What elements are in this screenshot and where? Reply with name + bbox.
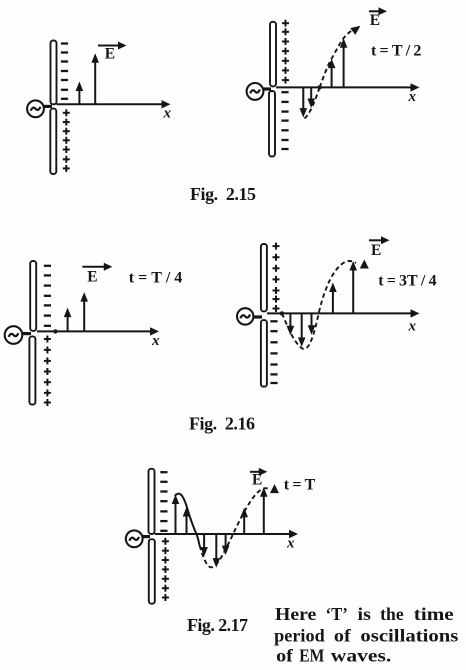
- negative charges D2: [281, 92, 288, 149]
- svg-text:E: E: [105, 46, 115, 63]
- E arrow up 1 D4: [329, 283, 337, 314]
- E arrow down 1 D2: [300, 87, 308, 117]
- E arrow down 2 D4: [298, 313, 306, 347]
- positive charges D3: [44, 336, 51, 407]
- E arrow up 2 D4: [349, 261, 357, 313]
- x-axis D1: [57, 100, 172, 121]
- x-axis D4: [267, 309, 420, 334]
- E arrow down 3 D4: [308, 313, 316, 334]
- negative charges D1: [61, 44, 68, 99]
- E vector label D2: [369, 7, 387, 29]
- negative charges D5: [160, 472, 167, 531]
- wave rising crest (dashed) D2: [320, 30, 354, 88]
- svg-text:x: x: [408, 89, 417, 105]
- caption text: time period note: [274, 604, 458, 666]
- E arrow 2 D3: [80, 292, 88, 331]
- svg-text:Here‘T’isthetime: Here‘T’isthetime: [275, 604, 454, 624]
- wire: source to antenna: [252, 315, 262, 318]
- E vector label D4: [369, 236, 390, 258]
- node dot on axis D2: [317, 85, 321, 89]
- E arrow up 2 D2: [340, 38, 348, 87]
- E arrow down 3 D5: [222, 534, 230, 555]
- E arrow down 1 D4: [287, 313, 295, 335]
- wave end arrowhead D4: [360, 260, 369, 269]
- antenna upper rod D4: [261, 244, 267, 311]
- E arrow 1 D3: [64, 308, 72, 332]
- positive charges D4: [273, 243, 280, 312]
- positive charges D5: [162, 538, 169, 601]
- antenna upper rod D5: [149, 469, 155, 534]
- svg-text:periodofoscillations: periodofoscillations: [274, 626, 458, 646]
- diagram 3: antenna at t=T/4: [5, 261, 183, 406]
- wave trough+crest (dashed) D5: [200, 488, 269, 567]
- E arrow up 1 D2: [328, 59, 336, 88]
- x-axis D5: [155, 530, 298, 552]
- svg-text:E: E: [87, 269, 97, 286]
- negative charges D4: [270, 321, 277, 383]
- E vector label D3: [82, 263, 112, 286]
- E arrow down 2 D5: [213, 534, 221, 568]
- E arrow up 3 D5: [240, 508, 248, 534]
- svg-text:x: x: [408, 319, 417, 335]
- svg-text:Fig. 2.17: Fig. 2.17: [187, 615, 248, 635]
- AC source: [5, 326, 23, 344]
- svg-text:x: x: [163, 106, 172, 122]
- node dot on axis D3: [53, 329, 57, 333]
- antenna lower rod D4: [261, 320, 267, 387]
- E arrow up 4 D5: [260, 487, 268, 534]
- wire: source to antenna: [42, 105, 52, 108]
- diagram 4: antenna at t=3T/4: [237, 236, 437, 386]
- wire: source to antenna: [140, 535, 150, 538]
- wave arrowhead D2: [350, 22, 363, 34]
- svg-text:x: x: [286, 536, 295, 552]
- antenna lower rod D1: [50, 109, 56, 174]
- wire: source to antenna: [20, 332, 31, 335]
- wave full cycle (dashed) D4: [282, 261, 356, 349]
- E arrow 2 D1: [91, 53, 99, 104]
- svg-text:t = 3T / 4: t = 3T / 4: [378, 272, 436, 289]
- diagram 5: antenna at t=T: [126, 468, 316, 604]
- diagram 2: antenna at t=T/2: [247, 7, 422, 156]
- E vector label D1: [98, 42, 127, 63]
- x-axis D3: [37, 327, 160, 349]
- svg-text:Fig. 2.15: Fig. 2.15: [190, 184, 256, 204]
- svg-text:Fig. 2.16: Fig. 2.16: [189, 414, 255, 434]
- E arrow down 2 D2: [307, 87, 315, 108]
- wire: source to antenna: [261, 87, 271, 90]
- antenna lower rod D3: [29, 336, 35, 404]
- positive charges D1: [63, 109, 70, 172]
- AC source: [247, 83, 264, 100]
- AC source: [126, 530, 143, 547]
- svg-text:t = T / 2: t = T / 2: [371, 43, 421, 60]
- wave end arrowhead D5: [270, 484, 279, 493]
- E arrow up 1 D5: [172, 495, 180, 535]
- wave trough right half (dashed) D2: [305, 87, 320, 118]
- E arrow 1 D1: [76, 82, 84, 105]
- antenna upper rod D3: [30, 261, 36, 331]
- wave crest (solid) D5: [175, 494, 200, 546]
- diagram 1: antenna at t=0: [27, 41, 171, 175]
- E arrow up 2 D5: [183, 507, 191, 534]
- antenna lower rod D2: [269, 91, 275, 157]
- svg-text:t = T: t = T: [284, 477, 316, 494]
- positive charges D2: [282, 20, 289, 84]
- node dot on axis D4: [280, 311, 284, 315]
- x-axis D2: [276, 83, 420, 105]
- antenna lower rod D5: [149, 539, 155, 604]
- negative charges D3: [44, 266, 51, 326]
- AC source: [27, 100, 44, 117]
- AC source: [237, 308, 253, 324]
- antenna upper rod D2: [270, 22, 276, 87]
- E arrow down 1 D5: [200, 534, 208, 557]
- svg-text:E: E: [371, 242, 381, 259]
- svg-text:t = T / 4: t = T / 4: [129, 269, 183, 286]
- svg-text:x: x: [151, 333, 160, 349]
- E vector label D5: [250, 468, 267, 489]
- antenna upper rod D1: [51, 41, 57, 105]
